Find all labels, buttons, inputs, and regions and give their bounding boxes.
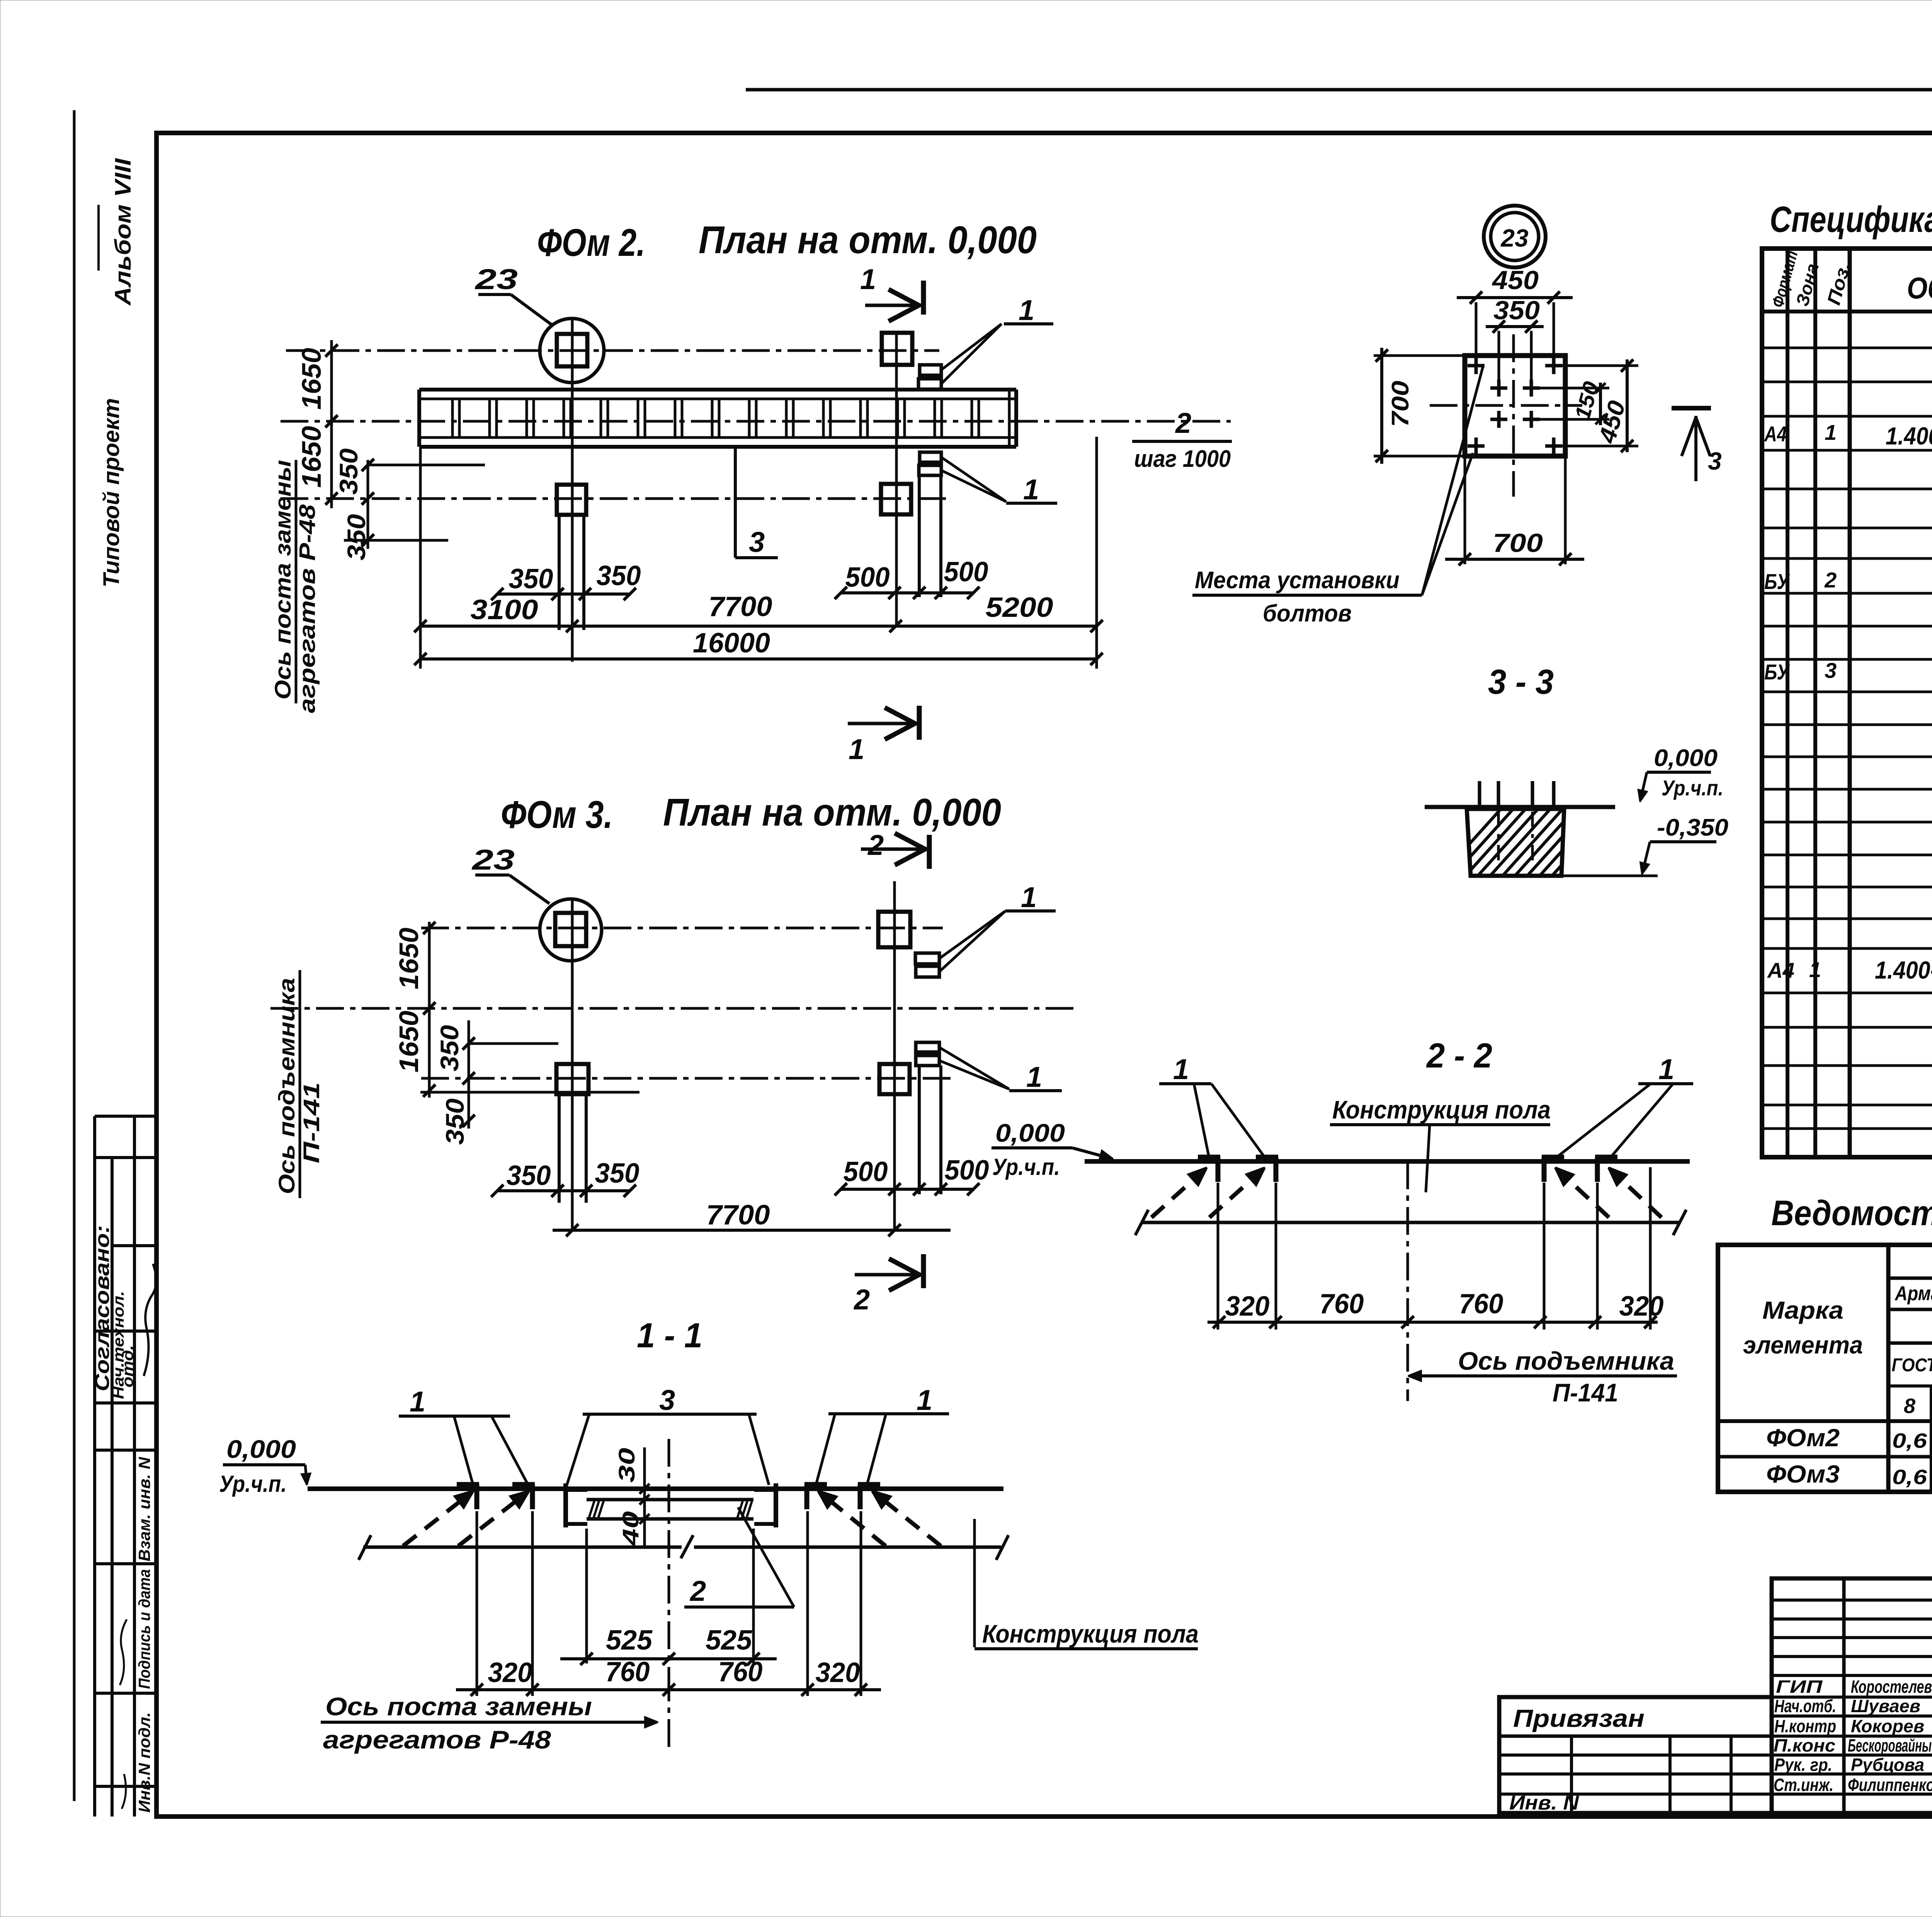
svg-text:Инв.N подл.: Инв.N подл. <box>135 1712 153 1813</box>
svg-text:Нач.отб.: Нач.отб. <box>1774 1696 1836 1716</box>
dim row 3100 7700 5200 <box>420 625 1097 628</box>
bolt strip right <box>918 476 921 597</box>
svg-text:23: 23 <box>474 263 518 295</box>
svg-text:3: 3 <box>659 1384 675 1416</box>
axis B1 top <box>421 927 943 930</box>
svg-text:агрегатов Р-48: агрегатов Р-48 <box>323 1725 551 1754</box>
svg-text:Марка: Марка <box>1762 1296 1844 1324</box>
svg-text:1: 1 <box>1809 957 1821 982</box>
anchor b3 <box>804 1482 827 1487</box>
section mark 1 bottom <box>917 706 922 740</box>
svg-text:1650: 1650 <box>296 426 327 488</box>
svg-text:1: 1 <box>410 1386 425 1418</box>
svg-text:23: 23 <box>1500 224 1528 252</box>
column verticals fom3 <box>571 901 574 1230</box>
bolt plates bottom with leader 1 <box>920 452 941 462</box>
svg-text:П-141: П-141 <box>1553 1378 1618 1407</box>
svg-text:2: 2 <box>1175 407 1191 439</box>
svg-text:БУ: БУ <box>1764 660 1790 684</box>
signature table grid <box>1772 1578 1932 1813</box>
svg-text:П.конс: П.конс <box>1774 1735 1835 1755</box>
dim 350 350 fom3 <box>497 1189 630 1192</box>
svg-text:План на отм. 0,000: План на отм. 0,000 <box>699 218 1037 262</box>
svg-text:320: 320 <box>488 1657 532 1688</box>
svg-text:агрегатов Р-48: агрегатов Р-48 <box>295 504 320 713</box>
detail center lines <box>1512 334 1515 497</box>
svg-text:320: 320 <box>1619 1291 1664 1322</box>
dim 30 40 1-1 <box>643 1447 646 1548</box>
detail extension lines top <box>1475 302 1478 363</box>
svg-text:Ст.инж.: Ст.инж. <box>1774 1775 1833 1795</box>
svg-text:болтов: болтов <box>1263 600 1352 627</box>
svg-text:2: 2 <box>689 1575 706 1607</box>
svg-text:8: 8 <box>1904 1394 1915 1418</box>
svg-text:-0,350: -0,350 <box>1657 814 1728 841</box>
svg-text:1: 1 <box>1019 294 1034 326</box>
svg-text:ГИП: ГИП <box>1776 1677 1823 1697</box>
svg-text:1.400-15, вып.1: 1.400-15, вып.1 <box>1886 422 1932 450</box>
svg-text:1: 1 <box>1021 881 1037 913</box>
svg-text:700: 700 <box>1493 528 1543 558</box>
svg-text:16000: 16000 <box>693 628 770 659</box>
steel table grid <box>1718 1245 1932 1492</box>
svg-text:Альбом VIII: Альбом VIII <box>111 158 136 306</box>
anchor b4 <box>858 1482 880 1487</box>
svg-text:А4: А4 <box>1767 958 1794 982</box>
lower column square right <box>881 484 911 514</box>
svg-text:500: 500 <box>844 1156 888 1187</box>
dim 500 500 fom3 <box>841 1188 973 1191</box>
section mark 2 bottom <box>921 1254 926 1288</box>
column axis vertical right <box>895 332 898 626</box>
svg-text:1650: 1650 <box>296 348 327 410</box>
detail plate <box>1465 356 1565 456</box>
svg-text:350: 350 <box>507 1160 551 1191</box>
anchor angle a1 <box>1198 1155 1220 1160</box>
stamp small squiggle 2 <box>120 1619 127 1685</box>
svg-text:Места установки: Места установки <box>1195 567 1400 594</box>
floor line 1-1 <box>308 1486 1003 1491</box>
svg-text:1: 1 <box>1825 420 1837 444</box>
lower square right fom3 <box>879 1064 910 1094</box>
svg-text:40: 40 <box>618 1511 643 1546</box>
svg-text:Ур.ч.п.: Ур.ч.п. <box>992 1154 1060 1180</box>
foundation block hatched 3-3 <box>1467 809 1564 876</box>
svg-text:Шуваев: Шуваев <box>1851 1696 1920 1716</box>
steel plate 1-1 <box>587 1498 753 1502</box>
center axis 2-2 <box>1406 1161 1409 1401</box>
slab bottom line 2-2 <box>1141 1221 1680 1224</box>
spec table grid <box>1762 249 1932 1157</box>
svg-text:3: 3 <box>749 526 765 558</box>
svg-text:Н.контр: Н.контр <box>1774 1716 1836 1736</box>
svg-text:2: 2 <box>1824 568 1837 592</box>
svg-text:350: 350 <box>1493 296 1540 325</box>
svg-text:Ур.ч.п.: Ур.ч.п. <box>1662 776 1723 800</box>
dim row 16000 <box>420 657 1097 661</box>
anchor angle a3 <box>1542 1155 1564 1160</box>
extension lines 2-2 <box>1217 1183 1219 1330</box>
svg-text:500: 500 <box>944 557 988 587</box>
svg-text:Обозначение: Обозначение <box>1907 271 1932 305</box>
svg-text:Рубцова: Рубцова <box>1851 1755 1924 1775</box>
svg-text:350: 350 <box>597 560 641 591</box>
svg-text:1650: 1650 <box>394 928 424 989</box>
channel right 1-1 <box>774 1483 778 1527</box>
center axis 1-1 <box>668 1439 670 1674</box>
svg-text:Бескоровайный: Бескоровайный <box>1848 1735 1932 1755</box>
anchor b2 <box>512 1482 535 1487</box>
label Konstrukciya pola 1-1 <box>973 1519 976 1647</box>
svg-text:1: 1 <box>1026 1061 1042 1093</box>
beam ladder strip <box>419 388 1016 392</box>
left dim 1650 pair fom3 <box>428 922 431 1098</box>
svg-text:525: 525 <box>706 1625 752 1656</box>
svg-text:Коростелев: Коростелев <box>1851 1677 1932 1697</box>
slab bottom line 1-1 <box>363 1546 682 1549</box>
svg-text:0,000: 0,000 <box>1654 745 1718 771</box>
svg-text:ФОм3: ФОм3 <box>1766 1460 1840 1488</box>
benchmark circle 23 fom3 <box>540 899 602 961</box>
svg-text:2 - 2: 2 - 2 <box>1426 1037 1492 1075</box>
svg-text:Ур.ч.п.: Ур.ч.п. <box>219 1471 287 1497</box>
svg-text:450: 450 <box>1492 266 1539 295</box>
benchmark circle 23 <box>540 318 604 383</box>
left dim 1650 pair <box>330 340 333 508</box>
anchor angle a4 <box>1595 1155 1617 1160</box>
dashed anchors 2-2 right <box>1610 1169 1662 1217</box>
svg-text:Рук. гр.: Рук. гр. <box>1774 1755 1832 1775</box>
svg-text:760: 760 <box>605 1657 650 1687</box>
svg-text:Ведомость расхода стали на: Ведомость расхода стали на элемент, кг <box>1771 1193 1932 1233</box>
detail right dims 150 450 <box>1554 364 1638 367</box>
svg-text:ФОм 3.: ФОм 3. <box>501 793 613 836</box>
svg-text:Привязан: Привязан <box>1513 1704 1645 1732</box>
pier strip center <box>558 515 561 630</box>
pier strips fom3 <box>558 1094 561 1203</box>
svg-text:760: 760 <box>1459 1289 1503 1319</box>
svg-text:Ось подъемника: Ось подъемника <box>274 978 299 1194</box>
svg-text:7700: 7700 <box>709 591 772 622</box>
svg-text:525: 525 <box>606 1625 653 1656</box>
stamp signature squiggle <box>144 1264 156 1376</box>
svg-text:3: 3 <box>1825 658 1837 683</box>
axis line A1 top <box>286 349 939 352</box>
svg-text:А4: А4 <box>1764 422 1787 446</box>
bolt plates top with leader 1 <box>920 365 941 375</box>
svg-text:320: 320 <box>1225 1291 1270 1322</box>
axis line A3 lower <box>281 497 946 500</box>
svg-text:0,6: 0,6 <box>1892 1429 1927 1452</box>
dim extension lines <box>419 448 422 669</box>
svg-text:350: 350 <box>435 1025 464 1071</box>
svg-text:Типовой проект: Типовой проект <box>99 398 124 587</box>
bolt plates top fom3 <box>915 953 939 964</box>
lower square center fom3 <box>556 1064 588 1094</box>
svg-text:3 - 3: 3 - 3 <box>1488 663 1554 701</box>
svg-text:500: 500 <box>945 1155 989 1186</box>
axis B2 lift axis <box>270 1007 1078 1010</box>
svg-text:1: 1 <box>860 263 876 295</box>
dim row 2-2 <box>1207 1321 1658 1324</box>
svg-text:1: 1 <box>1023 473 1039 506</box>
svg-text:ГОСТ 5781-82*: ГОСТ 5781-82* <box>1892 1355 1932 1376</box>
svg-text:700: 700 <box>1387 381 1414 427</box>
detail bottom dim 700 <box>1464 456 1466 564</box>
svg-text:1: 1 <box>849 733 864 765</box>
svg-text:Ось поста замены: Ось поста замены <box>325 1692 592 1721</box>
ground line 3-3 <box>1425 805 1615 809</box>
sheet top edge line <box>746 88 1932 92</box>
callout 3 <box>734 448 737 558</box>
svg-text:План на отм. 0,000: План на отм. 0,000 <box>663 791 1001 834</box>
svg-text:3: 3 <box>1708 447 1722 475</box>
svg-text:1: 1 <box>1173 1053 1189 1085</box>
svg-text:1: 1 <box>1658 1053 1674 1085</box>
svg-text:350: 350 <box>595 1158 639 1189</box>
svg-text:30: 30 <box>614 1448 639 1483</box>
privyazan table <box>1499 1697 1772 1813</box>
svg-text:760: 760 <box>718 1657 763 1687</box>
svg-text:Взам. инв. N: Взам. инв. N <box>135 1456 153 1561</box>
svg-text:шаг 1000: шаг 1000 <box>1134 446 1231 472</box>
svg-text:Филиппенко: Филиппенко <box>1848 1775 1932 1795</box>
svg-text:БУ: БУ <box>1764 569 1790 594</box>
svg-text:Арматура класса: Арматура класса <box>1894 1282 1932 1305</box>
axis line A2 beam center <box>281 420 1231 423</box>
ground line 2-2 <box>1085 1159 1690 1164</box>
dashed anchors 1-1 right <box>873 1492 941 1546</box>
svg-text:ФОм2: ФОм2 <box>1766 1424 1840 1452</box>
view marker 3 <box>1672 406 1711 410</box>
dim row 7700 fom3 <box>553 1229 951 1232</box>
svg-text:500: 500 <box>845 562 890 593</box>
svg-text:320: 320 <box>816 1657 860 1688</box>
svg-text:ФОм 2.: ФОм 2. <box>537 221 645 264</box>
axis B3 lower <box>421 1077 954 1080</box>
dim 525 525 <box>560 1657 777 1660</box>
lower column square center <box>557 485 586 515</box>
bolt plates lower fom3 <box>916 1042 939 1052</box>
svg-text:Подпись и дата: Подпись и дата <box>135 1569 153 1689</box>
column axis vertical left <box>571 319 574 662</box>
svg-text:1 - 1: 1 - 1 <box>637 1316 702 1355</box>
detail bolts plus marks <box>1468 364 1485 368</box>
column square top right <box>882 333 912 365</box>
svg-text:1650: 1650 <box>394 1011 424 1073</box>
svg-text:350: 350 <box>440 1098 469 1145</box>
dim 320 760 760 320 <box>456 1688 881 1691</box>
svg-text:350: 350 <box>334 448 363 495</box>
svg-text:2: 2 <box>853 1284 870 1316</box>
svg-text:Ось подъемника: Ось подъемника <box>1458 1347 1674 1375</box>
detail circled 23 <box>1484 206 1546 267</box>
svg-text:элемента: элемента <box>1743 1331 1863 1359</box>
svg-text:Конструкция пола: Конструкция пола <box>1332 1095 1551 1124</box>
dim 350 350 center <box>497 592 630 596</box>
svg-text:3100: 3100 <box>471 594 538 625</box>
detail left dim 700 <box>1374 354 1465 357</box>
svg-text:Инв. N: Инв. N <box>1509 1792 1580 1814</box>
svg-text:0,6: 0,6 <box>1892 1466 1927 1489</box>
svg-text:7700: 7700 <box>706 1200 770 1231</box>
svg-text:0,000: 0,000 <box>995 1119 1065 1147</box>
left dim 350 pair <box>367 460 369 549</box>
dashed anchors 2-2 left <box>1151 1169 1206 1217</box>
svg-text:23: 23 <box>471 844 515 876</box>
left dim 350 pair fom3 <box>468 1020 470 1129</box>
anchor bolts 3-3 <box>1478 781 1481 808</box>
dashed anchors 1-1 left <box>403 1492 472 1546</box>
anchor b1 <box>457 1482 479 1487</box>
channel left 1-1 <box>563 1483 568 1527</box>
svg-text:Спецификация фундаментов: Спецификация фундаментов <box>1770 199 1932 240</box>
svg-text:П-141: П-141 <box>299 1082 324 1163</box>
anchor angle a2 <box>1256 1155 1278 1160</box>
svg-text:Конструкция пола: Конструкция пола <box>982 1619 1199 1648</box>
svg-text:Ось поста замены: Ось поста замены <box>270 460 296 700</box>
svg-text:350: 350 <box>342 514 371 560</box>
svg-text:0,000: 0,000 <box>226 1435 296 1463</box>
left stamp column grid <box>95 1115 156 1118</box>
sheet left edge line <box>73 110 76 1801</box>
svg-text:760: 760 <box>1320 1289 1364 1319</box>
svg-text:5200: 5200 <box>986 592 1053 623</box>
dim 500 500 right <box>841 591 973 594</box>
svg-text:1.400-15, вып.1: 1.400-15, вып.1 <box>1875 956 1932 984</box>
top right square fom3 <box>878 912 910 947</box>
svg-text:1: 1 <box>917 1384 932 1416</box>
svg-text:Кокорев: Кокорев <box>1851 1716 1924 1736</box>
svg-text:отд.: отд. <box>119 1345 136 1388</box>
svg-text:350: 350 <box>509 564 553 594</box>
svg-text:2: 2 <box>867 829 884 861</box>
